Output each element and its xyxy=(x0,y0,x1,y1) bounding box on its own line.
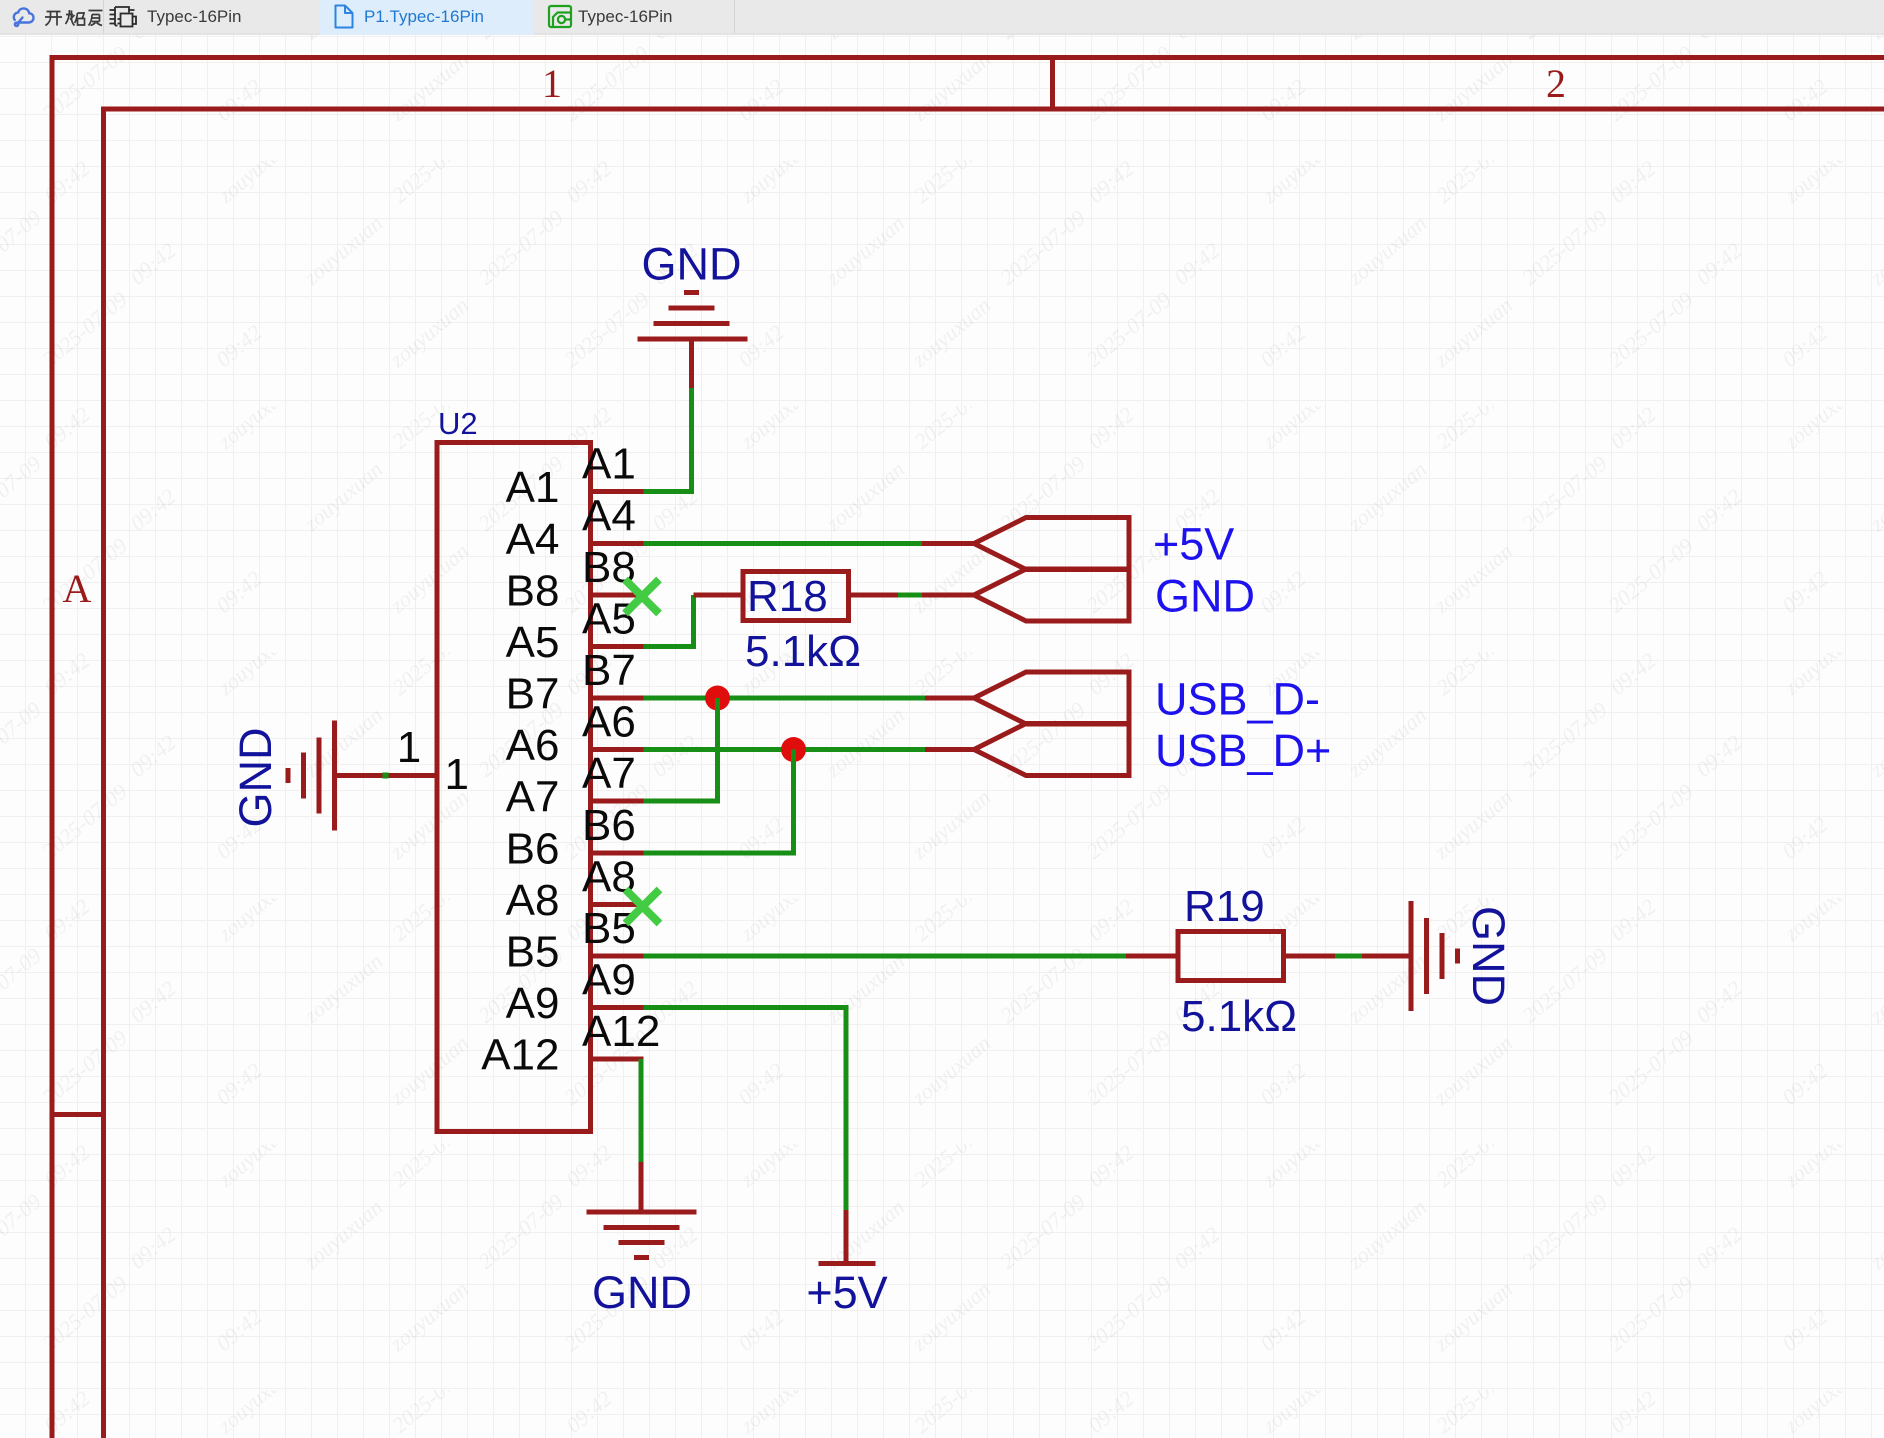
wire A9 to +5V power xyxy=(644,1008,847,1211)
svg-text:A4: A4 xyxy=(582,492,636,541)
junction dot B7/A7 xyxy=(705,686,730,711)
svg-text:A12: A12 xyxy=(481,1031,559,1080)
svg-text:1: 1 xyxy=(397,723,421,772)
component U2 (Type-C connector symbol) xyxy=(437,406,591,1132)
pin A6 xyxy=(591,747,644,752)
svg-text:A9: A9 xyxy=(506,979,560,1028)
svg-text:1: 1 xyxy=(445,750,469,799)
pin names (inside body) xyxy=(445,463,560,1080)
pin B7 xyxy=(591,696,644,701)
netport USB_D- xyxy=(925,672,1129,724)
wire A1 to GND xyxy=(644,388,692,492)
svg-text:2: 2 xyxy=(1546,61,1566,106)
wire A5 to R18 xyxy=(644,595,694,647)
svg-text:GND: GND xyxy=(1155,571,1255,622)
svg-text:R19: R19 xyxy=(1184,882,1265,931)
ground GND (top, flipped) xyxy=(638,293,748,389)
pin 1 (left side) xyxy=(386,773,438,778)
svg-text:A6: A6 xyxy=(506,721,560,770)
svg-text:B6: B6 xyxy=(582,801,636,850)
pin B6 xyxy=(591,851,644,856)
netport GND xyxy=(922,569,1129,621)
ground GND (right, rotated) xyxy=(1362,901,1458,1011)
svg-text:GND: GND xyxy=(592,1267,692,1318)
wire dot at pin 1 xyxy=(383,773,389,779)
ground GND (left of pin 1, rotated) xyxy=(288,721,386,831)
no-connect X on pin B8 xyxy=(625,580,659,614)
pin A9 xyxy=(591,1005,644,1010)
wire B6 up to A6 net xyxy=(644,750,794,854)
svg-text:A9: A9 xyxy=(582,956,636,1005)
resistor R19 xyxy=(1126,882,1335,1041)
pin A8 xyxy=(591,902,644,907)
wire R19 to GND xyxy=(1335,954,1362,959)
pin B5 xyxy=(591,954,644,959)
svg-text:USB_D-: USB_D- xyxy=(1155,674,1320,725)
pin A7 xyxy=(591,799,644,804)
svg-text:A7: A7 xyxy=(582,749,636,798)
svg-text:1: 1 xyxy=(542,61,562,106)
svg-text:B8: B8 xyxy=(506,567,560,616)
svg-text:A5: A5 xyxy=(506,618,560,667)
svg-text:5.1kΩ: 5.1kΩ xyxy=(745,627,861,676)
pin A12 xyxy=(591,1057,644,1062)
no-connect X on pin A8 xyxy=(626,890,660,924)
netport USB_D+ xyxy=(925,724,1129,776)
pin B8 xyxy=(591,593,644,598)
svg-text:A6: A6 xyxy=(582,698,636,747)
svg-text:U2: U2 xyxy=(438,406,478,441)
wire A12 to GND xyxy=(639,1059,644,1162)
svg-text:A: A xyxy=(63,566,92,611)
svg-text:+5V: +5V xyxy=(806,1267,887,1318)
svg-text:GND: GND xyxy=(230,728,281,828)
U2 body xyxy=(437,443,591,1132)
svg-text:B7: B7 xyxy=(506,670,560,719)
svg-text:B7: B7 xyxy=(582,646,636,695)
svg-text:5.1kΩ: 5.1kΩ xyxy=(1181,992,1297,1041)
svg-text:A8: A8 xyxy=(506,876,560,925)
wire B7 to USB_D- flag xyxy=(644,696,926,701)
wire A6 to USB_D+ flag xyxy=(644,747,926,752)
svg-text:A4: A4 xyxy=(506,515,560,564)
svg-text:R18: R18 xyxy=(747,572,828,621)
svg-text:A7: A7 xyxy=(506,773,560,822)
wire R18 to GND flag xyxy=(898,593,922,598)
svg-text:A12: A12 xyxy=(582,1007,660,1056)
pin A4 xyxy=(591,541,644,546)
U2 right-side pins xyxy=(386,492,644,1060)
svg-text:USB_D+: USB_D+ xyxy=(1155,725,1331,776)
power +5V (bar, bottom) xyxy=(819,1210,876,1264)
pin numbers (outside) xyxy=(397,440,661,1057)
svg-text:B5: B5 xyxy=(506,928,560,977)
wire A4 to +5V flag xyxy=(644,541,923,546)
pin A5 xyxy=(591,644,644,649)
svg-text:B5: B5 xyxy=(582,904,636,953)
resistor R18 xyxy=(694,572,899,677)
svg-text:A1: A1 xyxy=(582,440,636,489)
svg-text:B6: B6 xyxy=(506,825,560,874)
svg-text:GND: GND xyxy=(642,239,742,290)
ground GND (bottom) xyxy=(587,1162,697,1258)
svg-text:GND: GND xyxy=(1463,906,1514,1006)
wire A7 up to B7 net xyxy=(644,698,718,801)
svg-text:+5V: +5V xyxy=(1153,519,1234,570)
svg-text:A5: A5 xyxy=(582,595,636,644)
netport +5V xyxy=(922,518,1129,570)
wire B5 to R19 xyxy=(644,954,1127,959)
pin A1 xyxy=(591,489,644,494)
svg-text:A1: A1 xyxy=(506,463,560,512)
junction dot A6/B6 xyxy=(781,737,806,762)
